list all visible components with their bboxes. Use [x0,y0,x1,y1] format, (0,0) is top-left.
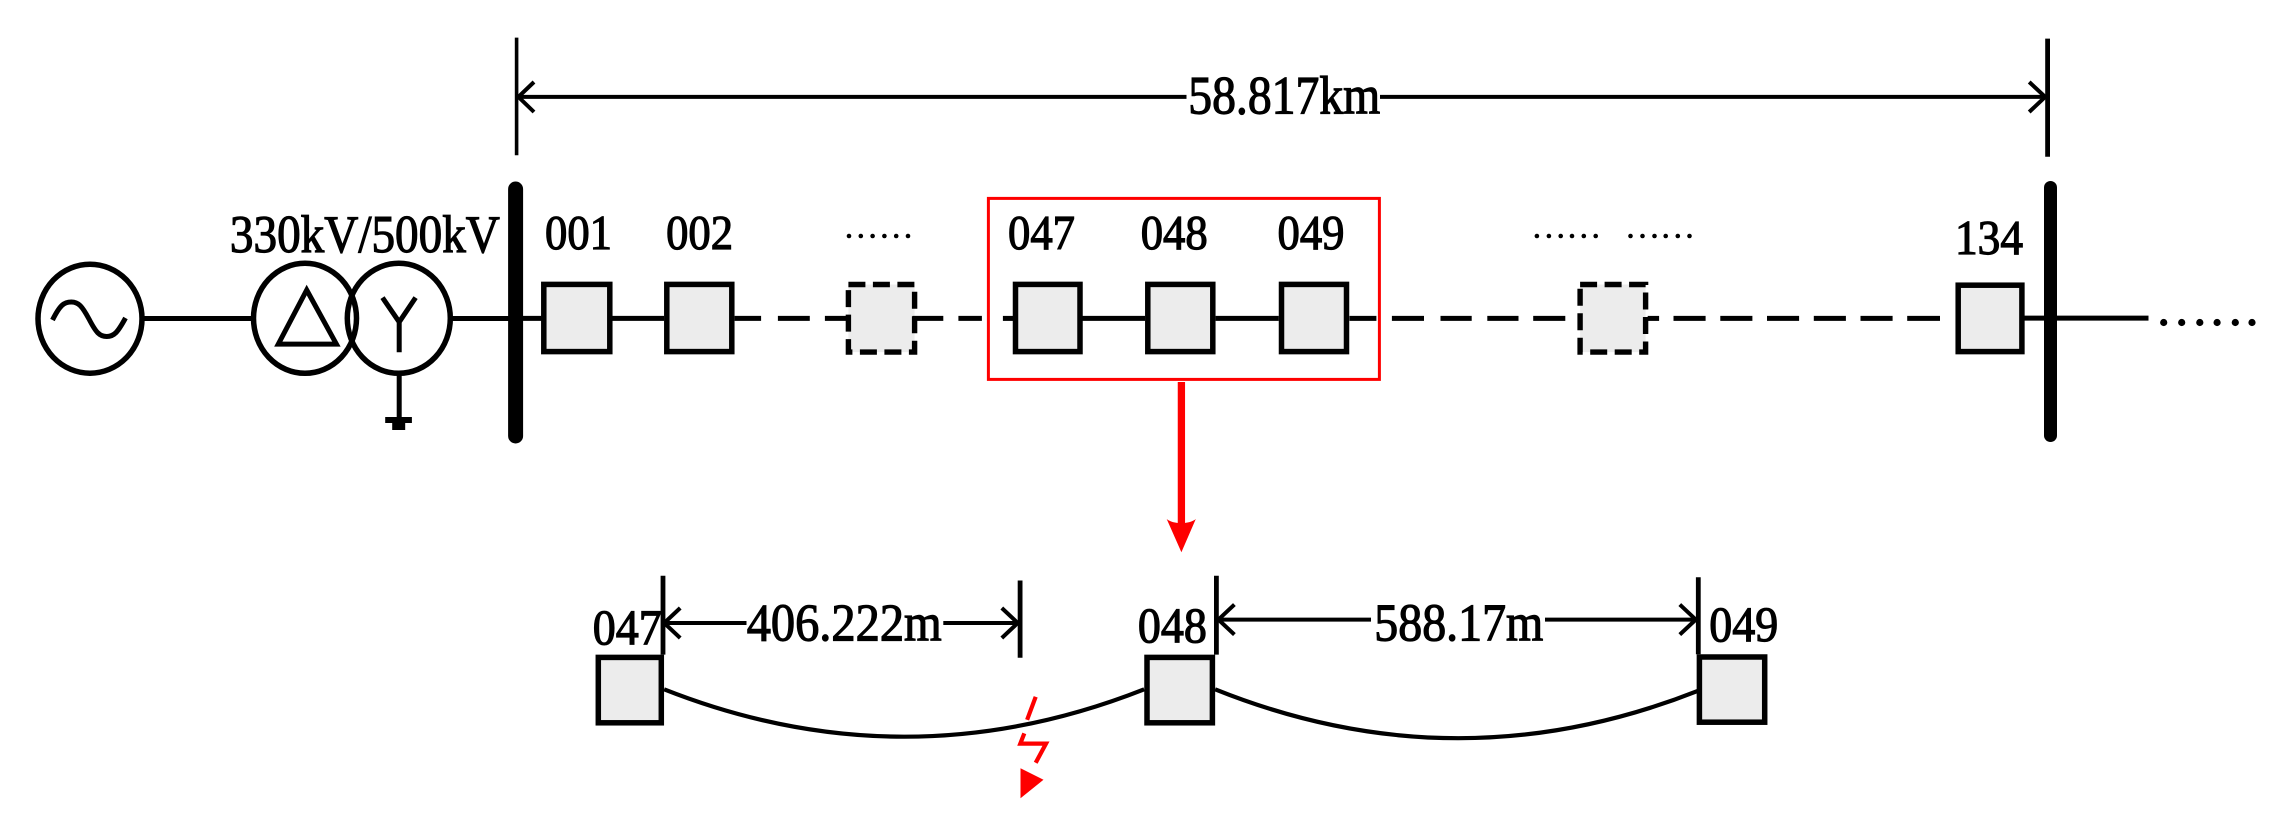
transformer T1 wye winding [347,263,450,373]
bold trailing dots [2160,319,2256,326]
dots ...... group A [1535,234,1598,239]
svg-text:049: 049 [1709,597,1778,652]
svg-text:330kV/500kV: 330kV/500kV [230,206,500,264]
ground [385,373,412,430]
dashed tower (omitted) left [848,285,914,353]
dashed wire to 047 [913,316,1013,321]
dimension tick left [515,38,519,156]
tick at 047 [661,576,666,655]
dots ...... [847,234,911,239]
svg-text:049: 049 [1278,207,1345,260]
dots ...... group B [1628,234,1692,239]
tower 048 [1148,284,1213,351]
svg-text:406.222m: 406.222m [747,595,942,653]
svg-text:58.817km: 58.817km [1188,66,1380,126]
fault lightning bolt [1020,697,1046,763]
busbar N (right) [2044,188,2057,436]
dashed wire to 134 [1648,316,1940,321]
wire 048-049 [1216,316,1279,321]
wire transformer to bus M [451,316,513,321]
red highlight rectangle [988,198,1379,379]
wire 047-048 [1082,316,1145,321]
wire 001-002 [613,316,665,321]
AC source G [38,264,142,373]
svg-text:048: 048 [1141,207,1208,260]
dashed wire 002 to dashed tower [735,316,846,321]
tower 048 detail [1147,657,1212,722]
dashed tower (omitted) right [1580,285,1646,353]
dimension 406.222m [664,608,1018,638]
tower 001 [544,284,610,351]
svg-text:048: 048 [1138,598,1207,653]
dimension 588.17m [1218,605,1695,635]
red callout arrow [1167,382,1196,552]
span wire 048-049 [1215,689,1698,738]
fault tick [1018,581,1023,658]
fault arrowhead [1021,768,1044,798]
tower 049 detail [1699,657,1764,722]
tower 002 [667,284,732,351]
tower 047 [1016,284,1081,351]
span wire 047-048 [664,689,1144,736]
tower 134 [1958,285,2022,351]
tick at 049 [1696,577,1701,654]
busbar M (left) [508,189,523,436]
svg-text:001: 001 [545,207,612,260]
svg-text:588.17m: 588.17m [1374,595,1543,653]
svg-text:047: 047 [1008,207,1075,260]
dimension tick right [2045,39,2050,157]
wire 134 to bus N [2022,316,2149,321]
tick at 048 [1214,576,1219,655]
dimension line 58.817km [518,82,2045,112]
tower 049 [1282,284,1347,351]
tower 047 detail [598,657,661,722]
wire source to transformer [142,316,254,321]
svg-text:134: 134 [1955,212,2023,265]
svg-text:002: 002 [666,207,733,260]
wire bus to tower 001 [520,316,543,321]
transformer T1 delta winding [254,263,357,373]
dashed wire 049 to dashed tower right [1350,316,1566,321]
svg-text:047: 047 [593,600,662,655]
